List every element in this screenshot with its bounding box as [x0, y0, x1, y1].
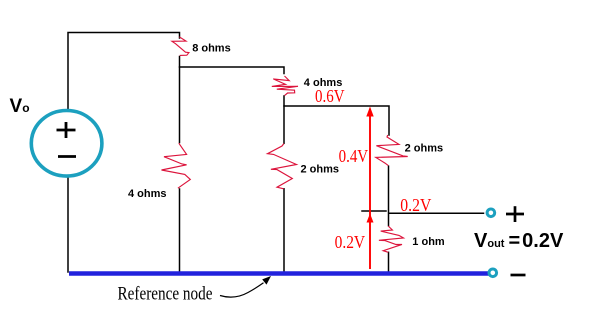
svg-text:8 ohms: 8 ohms — [192, 43, 231, 55]
svg-text:2 ohms: 2 ohms — [405, 142, 444, 154]
svg-text:0.4V: 0.4V — [339, 146, 369, 166]
svg-text:0.2V: 0.2V — [400, 195, 431, 215]
svg-text:1 ohm: 1 ohm — [412, 236, 445, 248]
svg-text:0.6V: 0.6V — [315, 86, 345, 106]
svg-text:0.2V: 0.2V — [335, 232, 366, 252]
svg-text:4 ohms: 4 ohms — [128, 188, 167, 200]
svg-text:2 ohms: 2 ohms — [301, 164, 340, 176]
svg-text:Reference node: Reference node — [118, 284, 213, 304]
